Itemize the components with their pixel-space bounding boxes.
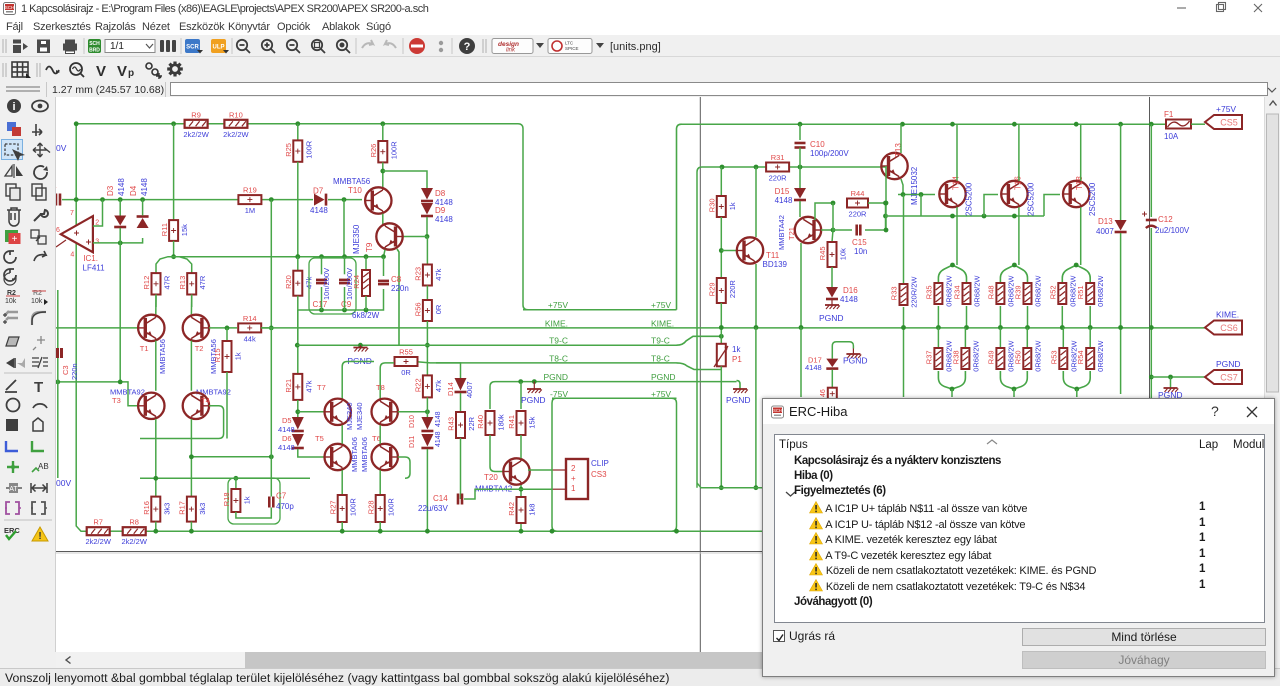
svg-text:CLIP: CLIP: [591, 459, 609, 468]
svg-text:p: p: [128, 68, 134, 79]
wire drop to y216: [920, 195, 922, 217]
svg-text:R40: R40: [476, 415, 485, 429]
wire to C15: [833, 229, 852, 231]
svg-text:100p/200V: 100p/200V: [810, 149, 849, 158]
wire D13 down: [1120, 233, 1122, 394]
wire R24 bottom: [365, 296, 367, 310]
svg-text:R49: R49: [986, 350, 995, 364]
ground PGND (left of -75V): [527, 388, 541, 390]
wire to R33: [903, 195, 905, 285]
sheet frame vertical divider: [699, 97, 701, 652]
svg-text:0R68/2W: 0R68/2W: [973, 275, 982, 307]
svg-text:R31: R31: [771, 153, 785, 162]
svg-text:D3: D3: [106, 185, 115, 196]
diode D14: [455, 378, 467, 391]
wire right join: [885, 203, 887, 230]
wire to T9: [403, 236, 427, 238]
resistor R41: [517, 411, 526, 435]
svg-text:10A: 10A: [1164, 132, 1179, 141]
wire to R24: [365, 257, 367, 270]
junction at 76,124: [74, 121, 79, 126]
resistor R54: [1086, 348, 1094, 369]
svg-text:MMBTA06: MMBTA06: [350, 437, 359, 472]
svg-text:T18: T18: [1075, 176, 1084, 190]
capacitor C17: [316, 279, 327, 282]
transistor T5 MMBTA06: [325, 444, 351, 470]
svg-text:4148: 4148: [117, 178, 126, 196]
wire rail to R25: [297, 124, 299, 141]
transistor T9 MJE350: [376, 223, 402, 249]
wire R23 to R56: [426, 286, 428, 301]
wire y=167 driver rail: [697, 167, 767, 488]
wire to D14: [436, 363, 461, 378]
wire R15 down: [226, 372, 228, 439]
svg-text:PGND: PGND: [1216, 359, 1241, 369]
wire T8 emitter to T6 collector: [379, 425, 381, 444]
junction at 902,124: [900, 122, 905, 127]
svg-text:MJE340: MJE340: [345, 402, 354, 430]
junction at 1151,328: [1149, 325, 1154, 330]
svg-text:1k: 1k: [242, 496, 251, 504]
diode D15: [794, 188, 806, 199]
wire D3 anode: [119, 200, 121, 216]
wire T11 emitter down: [755, 264, 757, 328]
svg-text:R25: R25: [284, 143, 293, 157]
svg-text:1k: 1k: [234, 352, 243, 360]
wire to C17: [321, 257, 323, 275]
wire x=756 lower: [755, 328, 757, 488]
wire net KIME. row: [261, 327, 1205, 329]
svg-text:R27: R27: [328, 500, 337, 514]
resistor R34: [963, 283, 971, 304]
diode D16: [826, 287, 838, 298]
junction at 120,243: [118, 241, 123, 246]
svg-text:R16: R16: [142, 501, 151, 515]
wire R52 to KIME: [1061, 306, 1063, 328]
wire between R7 R8: [109, 530, 123, 532]
wire T9 emitter down: [384, 250, 386, 257]
svg-text:D4: D4: [129, 185, 138, 196]
svg-text:R20: R20: [284, 275, 293, 289]
wire C9 bottom: [344, 287, 346, 310]
svg-text:0V: 0V: [56, 143, 67, 153]
transistor T2 MMBTA56: [183, 315, 209, 341]
svg-text:4148: 4148: [278, 443, 295, 452]
svg-text:R55: R55: [399, 348, 413, 357]
capacitor C10: [795, 142, 806, 145]
junction at 756,167: [754, 165, 759, 170]
wire R49R50 down: [1013, 389, 1015, 397]
wire R11 to split: [173, 241, 175, 257]
wire T18 collector: [1080, 124, 1082, 181]
resistor R38: [961, 348, 969, 369]
junction at 1028,328: [1025, 325, 1030, 330]
junction at 120,382: [118, 380, 123, 385]
svg-text:MJE350: MJE350: [352, 224, 361, 254]
wire PGND stub: [359, 345, 361, 347]
wire T8-C hook: [677, 363, 722, 370]
diode D9: [421, 203, 433, 215]
wire T9-C hook to P1: [677, 336, 722, 345]
resistor R17: [187, 497, 196, 522]
junction at 800,167: [798, 165, 803, 170]
transistor T13 MJE15032: [881, 153, 907, 179]
svg-text:CS3: CS3: [591, 470, 607, 479]
transistor T11 BD139: [737, 237, 763, 263]
junction at 380,531: [378, 529, 383, 534]
svg-text:0R68/2W: 0R68/2W: [971, 340, 980, 372]
wire Y-join R49 R50: [1000, 371, 1027, 389]
wire to D8: [383, 171, 427, 188]
svg-text:T7: T7: [317, 383, 326, 392]
resistor R43: [456, 412, 465, 438]
svg-text:2SC5200: 2SC5200: [1026, 182, 1035, 216]
svg-text:1k8: 1k8: [528, 504, 537, 516]
junction at 521,489: [519, 487, 524, 492]
schematic canvas: [56, 97, 1264, 652]
wire D3 cathode down to T3 row: [119, 228, 121, 381]
svg-text:4148: 4148: [805, 363, 822, 372]
svg-text:180k: 180k: [497, 414, 506, 431]
op-amp IC1 LF411: [61, 216, 93, 252]
wire +100V top rail left: [76, 123, 185, 125]
svg-text:1k: 1k: [732, 345, 741, 354]
svg-text:47k: 47k: [434, 380, 443, 392]
svg-text:R19: R19: [243, 186, 257, 195]
wire to R15: [226, 328, 228, 341]
wire C12 down: [1150, 228, 1152, 398]
svg-text:R30: R30: [708, 198, 717, 212]
resistor R14: [238, 323, 261, 332]
wire T21 emitter line lower: [800, 328, 802, 398]
svg-text:R34: R34: [953, 285, 962, 299]
svg-text:R37: R37: [924, 350, 933, 364]
resistor R33: [900, 284, 908, 305]
junction at 58,382: [55, 380, 60, 385]
wire D6 to T5 base: [298, 449, 325, 457]
wire KIME to R38: [964, 328, 966, 349]
junction at 886,230: [884, 228, 889, 233]
wire R14 right: [261, 327, 271, 329]
svg-text:C12: C12: [1158, 215, 1173, 224]
svg-text:D16: D16: [843, 286, 858, 295]
wire R20 column down to R21: [297, 310, 299, 374]
wire down to C7 tap: [270, 328, 272, 457]
wire to C8: [383, 257, 385, 276]
wire R28 to rail: [379, 522, 381, 531]
wire rail to D13: [1120, 124, 1122, 220]
svg-text:T20: T20: [484, 473, 498, 482]
wire Y-split R48 R39: [1000, 265, 1027, 283]
resistor R49: [996, 348, 1004, 369]
wire T7 emitter to T5 collector: [341, 425, 343, 444]
svg-text:R23: R23: [414, 267, 423, 281]
wire to R20: [297, 257, 299, 271]
svg-text:46: 46: [820, 389, 827, 397]
ground PGND (mid): [353, 347, 367, 349]
resistor R30: [717, 196, 726, 217]
svg-text:2u2/100V: 2u2/100V: [1155, 226, 1190, 235]
svg-text:+: +: [571, 474, 576, 483]
wire right top rail: [681, 123, 1166, 125]
svg-text:SCH: SCH: [5, 5, 15, 10]
svg-text:C17: C17: [313, 300, 328, 309]
wire T20 emitter to rail: [520, 485, 522, 531]
connector CS6 KIME: [1205, 321, 1242, 335]
wire R53R54 down: [1076, 389, 1078, 397]
svg-text:R51: R51: [1076, 285, 1085, 299]
wire T14 emitter: [956, 207, 958, 265]
svg-text:T8-C: T8-C: [651, 353, 670, 363]
wire net T9-C row: [399, 344, 677, 346]
wire R41 to T20 collector: [520, 435, 522, 458]
wire y=216 chain: [921, 215, 1044, 217]
junction at 800,124: [798, 122, 803, 127]
svg-text:IC1.: IC1.: [83, 254, 98, 263]
junction at 191,531: [189, 529, 194, 534]
svg-text:BRD: BRD: [89, 48, 100, 54]
junction at 1076,265: [1074, 263, 1079, 268]
ground PGND (D16): [825, 304, 839, 306]
junction at 903,194: [901, 192, 906, 197]
wire feedback tap to C9 column: [343, 200, 345, 257]
wire T9 collector to T9-C row: [397, 249, 399, 345]
wire R44 right: [868, 202, 886, 204]
svg-text:C3: C3: [61, 365, 70, 375]
junction at 1014,216: [1012, 214, 1017, 219]
svg-text:47k: 47k: [434, 268, 443, 280]
junction at 1077,389: [1074, 387, 1079, 392]
junction at 384,257: [381, 254, 386, 259]
wire D4 top: [142, 200, 144, 216]
svg-text:D13: D13: [1098, 217, 1113, 226]
wire R27 to rail: [341, 522, 343, 531]
wire R33 down: [903, 307, 905, 397]
svg-text:T8-C: T8-C: [549, 353, 568, 363]
svg-text:R10: R10: [229, 110, 243, 119]
wire F1 to CS5: [1191, 123, 1205, 125]
diode D3: [114, 216, 126, 226]
junction at 102,200: [100, 197, 105, 202]
wire net PGND row: [495, 381, 737, 383]
wire rail to R11: [173, 124, 175, 220]
wire R35 to KIME: [937, 306, 939, 328]
svg-text:47R: 47R: [163, 275, 172, 289]
svg-text:0R68/2W: 0R68/2W: [1096, 275, 1105, 307]
svg-text:R56: R56: [414, 302, 423, 316]
svg-text:R54: R54: [1076, 350, 1085, 364]
junction at 236,478: [234, 476, 239, 481]
svg-text:4148: 4148: [435, 431, 442, 447]
wire R55 right to T8-C row: [418, 362, 430, 363]
junction at 298,412: [295, 409, 300, 414]
capacitor C15: [855, 225, 858, 236]
junction at 427,236: [425, 234, 430, 239]
diode D6: [292, 434, 304, 447]
svg-text:R41: R41: [507, 415, 516, 429]
wire C10 to rail167: [799, 148, 801, 168]
wire N$34 row left part: [297, 344, 399, 346]
wire D7 to T10 base: [328, 199, 362, 201]
wire D15 to T21: [799, 201, 801, 217]
wire left -100V rail: [76, 124, 87, 531]
svg-text:1M: 1M: [245, 206, 255, 215]
svg-text:T1: T1: [140, 344, 149, 353]
resistor R29: [717, 278, 726, 303]
resistor R50: [1023, 348, 1031, 369]
wire T1 base from left edge: [56, 327, 138, 329]
connector CS5 +75V: [1205, 115, 1242, 129]
resistor R48: [996, 283, 1004, 304]
svg-text:MMBTA56: MMBTA56: [158, 339, 167, 374]
wire T8 base to R22 column: [398, 411, 428, 413]
sheet frame bottom border: [56, 551, 1264, 553]
svg-text:T9-C: T9-C: [549, 336, 568, 346]
svg-text:MMBTA06: MMBTA06: [360, 437, 369, 472]
diode D7: [314, 194, 325, 206]
wire bottom -75V rail: [145, 530, 762, 532]
potentiometer P1: [717, 344, 726, 367]
svg-text:LF411: LF411: [83, 264, 106, 273]
svg-text:D11: D11: [409, 436, 416, 448]
svg-text:CS7: CS7: [1220, 373, 1238, 383]
wire T16 collector: [1018, 124, 1020, 181]
svg-text:4148: 4148: [140, 178, 149, 196]
wire input net y=199.6 left: [62, 199, 239, 201]
junction at 322,310: [319, 308, 324, 313]
wire R16 to rail: [155, 522, 157, 532]
svg-text:15k: 15k: [180, 224, 189, 236]
wire R18 C7 bottoms: [236, 508, 271, 519]
svg-text:2k2/2W: 2k2/2W: [85, 537, 111, 546]
svg-text:4148: 4148: [435, 411, 442, 427]
resistor R35: [934, 283, 942, 304]
wire feedback column x=271: [270, 200, 272, 328]
svg-text:C10: C10: [810, 140, 825, 149]
svg-text:10k: 10k: [839, 248, 848, 260]
svg-text:PGND: PGND: [543, 372, 568, 382]
junction at 427,412: [425, 409, 430, 414]
junction at 721,488: [719, 485, 724, 490]
wire y=487.7 bottom link: [697, 483, 762, 488]
junction at 271,457: [269, 454, 274, 459]
wire R13 to T2: [190, 295, 192, 315]
wire T1 to T3: [155, 341, 157, 391]
junction at 952,124: [950, 122, 955, 127]
svg-text:1: 1: [571, 484, 576, 493]
junction at 721,336: [719, 334, 724, 339]
svg-text:D7: D7: [313, 187, 324, 196]
svg-text:220n: 220n: [70, 363, 79, 380]
svg-text:1k: 1k: [728, 202, 737, 210]
svg-text:3k3: 3k3: [162, 503, 171, 515]
transistor T16: [1001, 181, 1027, 207]
svg-text:0R68/2W: 0R68/2W: [1096, 340, 1105, 372]
wire to R45: [832, 230, 833, 242]
svg-text:D6: D6: [282, 434, 292, 443]
svg-text:R52: R52: [1048, 285, 1057, 299]
resistor R25: [293, 140, 302, 161]
junction at 938,328: [936, 325, 941, 330]
wire C7 tap y=456.8: [191, 456, 271, 458]
capacitor C8: [378, 280, 389, 283]
svg-text:MMBTA56: MMBTA56: [333, 177, 371, 186]
diode D10: [421, 417, 433, 430]
svg-text:SPICE: SPICE: [565, 46, 579, 51]
resistor R46: [828, 388, 837, 400]
wire R22 to D10: [426, 397, 428, 417]
svg-text:10k: 10k: [31, 298, 43, 305]
wire top rail to +75V label row: [247, 124, 528, 310]
junction at 521,531: [519, 529, 524, 534]
svg-text:220n: 220n: [391, 284, 409, 293]
junction at 174,257: [171, 254, 176, 259]
wire to R30: [720, 167, 722, 196]
svg-text:C8: C8: [391, 275, 402, 284]
diode D5: [292, 417, 304, 430]
wire R56 down across KIME: [426, 321, 428, 375]
svg-text:KIME.: KIME.: [1216, 310, 1239, 320]
svg-text:CS5: CS5: [1220, 118, 1238, 128]
junction at 297,345: [295, 343, 300, 348]
svg-text:R12: R12: [142, 276, 151, 290]
svg-text:3: 3: [95, 239, 99, 246]
wire D9 down: [426, 217, 428, 237]
wire D17 loop to ground: [832, 342, 853, 359]
resistor R12: [152, 273, 161, 294]
svg-text:00V: 00V: [56, 478, 71, 488]
resistor R56: [423, 300, 432, 321]
junction at 721,250: [719, 248, 724, 253]
wire Y-split R52 R51: [1062, 265, 1090, 283]
wire T6 base loop to y=478.3: [398, 457, 410, 478]
wire to C9: [344, 257, 346, 275]
wire T13 emitter: [901, 179, 903, 195]
wire net +75V row: [523, 309, 677, 311]
svg-text:KIME.: KIME.: [651, 318, 674, 328]
wire R34 to KIME: [966, 306, 968, 328]
transistor T1 MMBTA56: [138, 315, 164, 341]
wire PGND left end to ground: [533, 382, 535, 389]
resistor R44: [847, 199, 868, 208]
junction at 721,328: [719, 325, 724, 330]
svg-text:ULP: ULP: [213, 45, 225, 51]
resistor R26: [378, 141, 387, 162]
group frame R18 C7: [228, 478, 280, 524]
capacitor C4 (edge): [55, 194, 58, 206]
wire T8 collector to T8-C: [380, 363, 394, 400]
junction at 1076,124: [1074, 122, 1079, 127]
junction at 833,203: [831, 201, 836, 206]
resistor R19: [238, 195, 261, 204]
junction at 722,167: [720, 165, 725, 170]
wire D17 to R46: [831, 370, 833, 388]
junction at 952,389: [950, 387, 955, 392]
diode D11: [421, 434, 433, 447]
svg-text:T16: T16: [1013, 176, 1022, 190]
wire PGND row end to ground: [737, 381, 741, 389]
resistor R40: [486, 411, 495, 435]
resistor R39: [1024, 283, 1032, 304]
wire C15 right: [865, 229, 886, 231]
ground PGND (D17): [846, 353, 860, 355]
svg-text:10n: 10n: [854, 247, 867, 256]
junction at 1170,377: [1168, 375, 1173, 380]
svg-text:-75V: -75V: [550, 389, 568, 399]
svg-text:T9-C: T9-C: [651, 336, 670, 346]
junction at 298,257: [295, 254, 300, 259]
junction at 427,345: [425, 343, 430, 348]
